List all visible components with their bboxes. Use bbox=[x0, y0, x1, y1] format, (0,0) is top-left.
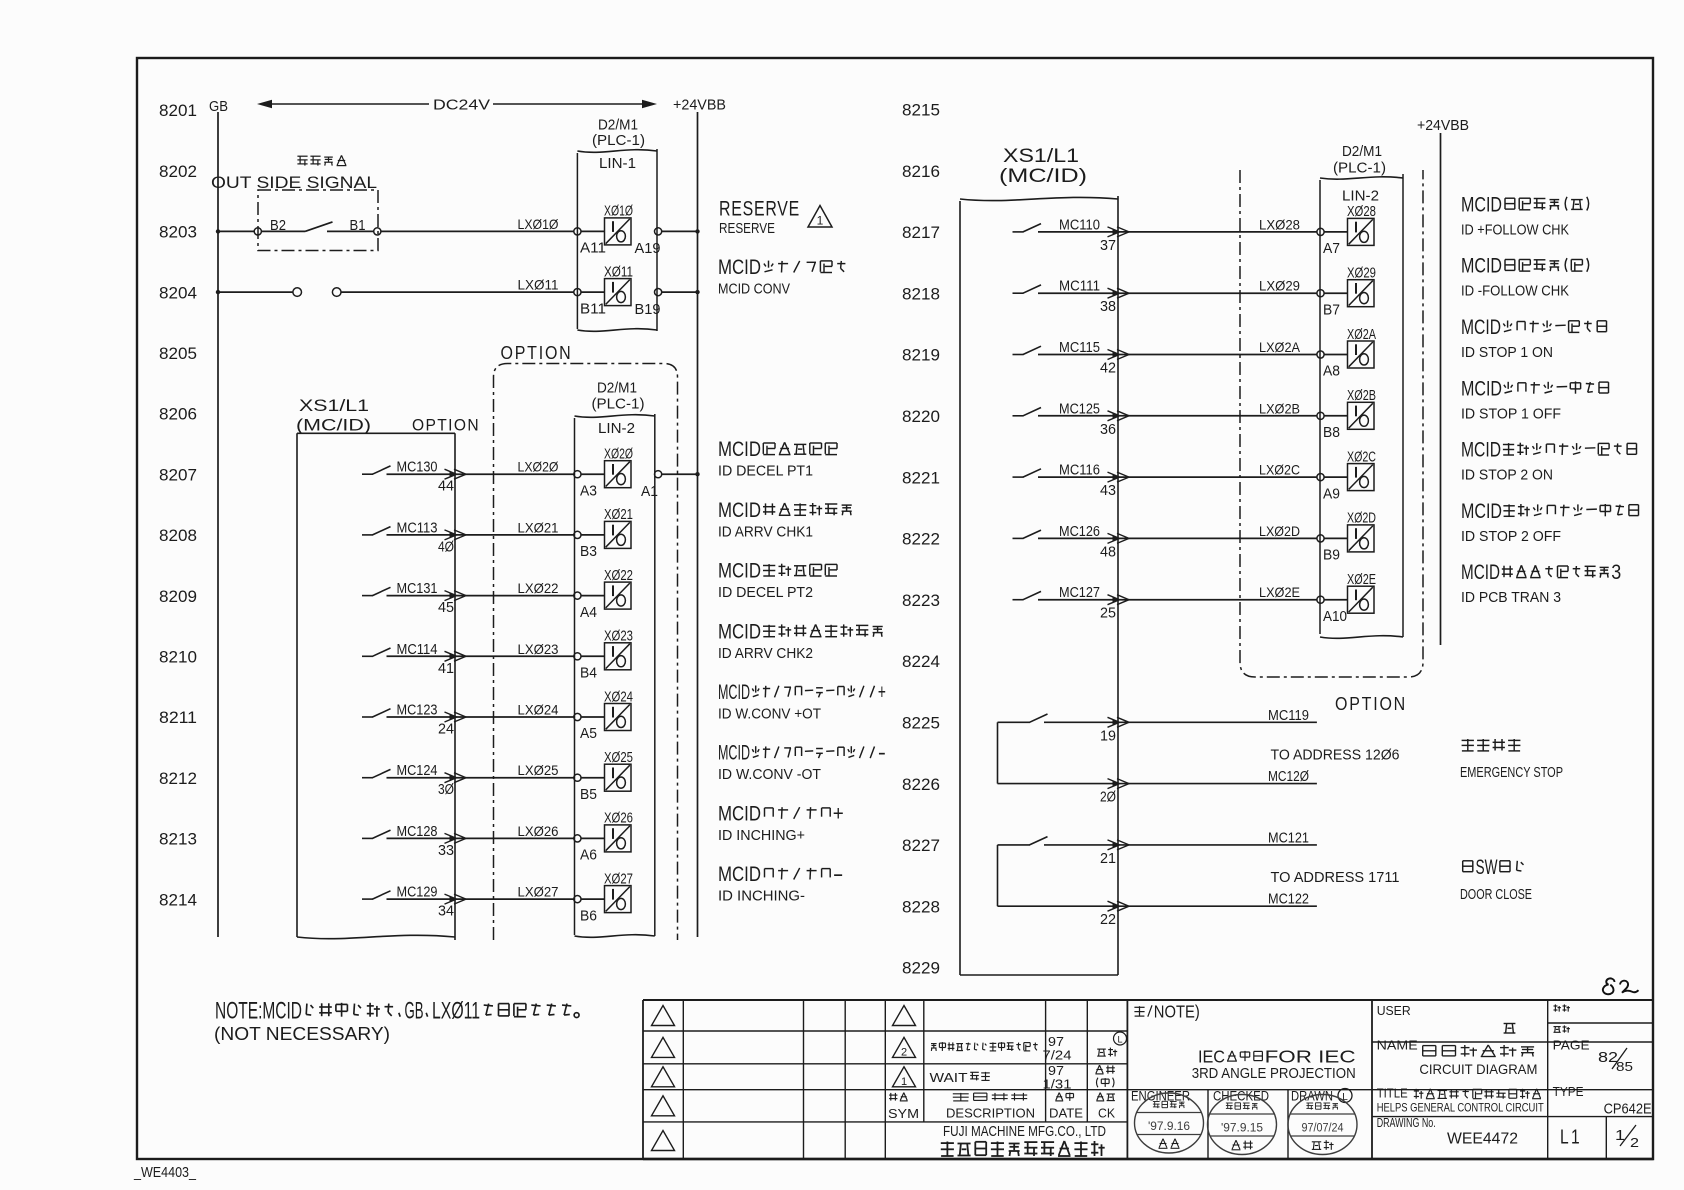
svg-text:(MC/ID): (MC/ID) bbox=[999, 165, 1087, 187]
svg-text:XS1/L1: XS1/L1 bbox=[299, 396, 369, 415]
svg-text:24: 24 bbox=[438, 722, 454, 738]
svg-text:MCID: MCID bbox=[1461, 439, 1501, 462]
svg-text:34: 34 bbox=[438, 904, 454, 920]
svg-text:MCID: MCID bbox=[718, 499, 761, 522]
svg-text:'97.9.16: '97.9.16 bbox=[1148, 1121, 1190, 1133]
svg-text:XØ24: XØ24 bbox=[604, 689, 633, 705]
svg-text:D2/M1: D2/M1 bbox=[598, 118, 638, 134]
svg-text:L: L bbox=[1117, 1035, 1122, 1045]
svg-text:ID W.CONV -OT: ID W.CONV -OT bbox=[718, 767, 821, 783]
svg-text:DRAWING No.: DRAWING No. bbox=[1377, 1116, 1436, 1130]
svg-text:LXØ24: LXØ24 bbox=[518, 702, 559, 718]
svg-text:XØ21: XØ21 bbox=[604, 507, 633, 523]
svg-text:8201: 8201 bbox=[159, 101, 197, 120]
svg-text:OPTION: OPTION bbox=[1335, 694, 1407, 714]
svg-text:RESERVE: RESERVE bbox=[719, 197, 800, 220]
svg-text:MCID: MCID bbox=[718, 620, 761, 643]
svg-text:MC110: MC110 bbox=[1059, 217, 1100, 233]
svg-text:MCID: MCID bbox=[718, 742, 750, 765]
svg-text:8217: 8217 bbox=[902, 223, 940, 242]
svg-text:XØ2E: XØ2E bbox=[1347, 572, 1376, 588]
svg-text:MC111: MC111 bbox=[1059, 279, 1100, 295]
svg-text:MC129: MC129 bbox=[397, 885, 438, 901]
svg-text:MC130: MC130 bbox=[397, 460, 438, 476]
svg-text:8228: 8228 bbox=[902, 897, 940, 916]
svg-text:MC124: MC124 bbox=[397, 763, 438, 779]
svg-text:8222: 8222 bbox=[902, 530, 940, 549]
svg-text:XØ27: XØ27 bbox=[604, 871, 633, 887]
svg-text:8218: 8218 bbox=[902, 284, 940, 303]
svg-text:8209: 8209 bbox=[159, 587, 197, 606]
svg-text:1: 1 bbox=[817, 214, 824, 228]
svg-text:8204: 8204 bbox=[159, 283, 197, 302]
svg-text:B7: B7 bbox=[1323, 302, 1340, 318]
svg-text:ID STOP 2 ON: ID STOP 2 ON bbox=[1461, 468, 1553, 484]
svg-text:MCID: MCID bbox=[718, 802, 761, 825]
svg-text:MCID: MCID bbox=[1461, 316, 1501, 339]
svg-text:8202: 8202 bbox=[159, 162, 197, 181]
svg-text:1: 1 bbox=[901, 1076, 907, 1088]
svg-text:LXØ2Ø: LXØ2Ø bbox=[518, 459, 559, 475]
svg-text:DATE: DATE bbox=[1049, 1106, 1083, 1121]
svg-text:A10: A10 bbox=[1323, 609, 1347, 625]
svg-text:LXØ22: LXØ22 bbox=[518, 580, 559, 596]
svg-text:8205: 8205 bbox=[159, 344, 197, 363]
svg-text:42: 42 bbox=[1100, 361, 1116, 377]
svg-text:TO ADDRESS 12Ø6: TO ADDRESS 12Ø6 bbox=[1271, 747, 1400, 763]
svg-text:MC119: MC119 bbox=[1268, 708, 1309, 724]
svg-text:3: 3 bbox=[1611, 561, 1621, 584]
svg-text:MCID: MCID bbox=[718, 560, 761, 583]
svg-text:DESCRIPTION: DESCRIPTION bbox=[946, 1106, 1035, 1121]
svg-text:MCID: MCID bbox=[1461, 255, 1502, 278]
svg-text:MCID CONV: MCID CONV bbox=[718, 282, 790, 298]
svg-text:44: 44 bbox=[438, 479, 454, 495]
svg-text:8229: 8229 bbox=[902, 959, 940, 978]
svg-text:ID DECEL PT1: ID DECEL PT1 bbox=[718, 464, 813, 480]
svg-text:XØ2A: XØ2A bbox=[1347, 327, 1376, 343]
svg-text:(NOT NECESSARY): (NOT NECESSARY) bbox=[214, 1024, 390, 1044]
svg-text:B8: B8 bbox=[1323, 425, 1340, 441]
svg-text:LXØ27: LXØ27 bbox=[518, 884, 559, 900]
svg-text:8206: 8206 bbox=[159, 405, 197, 424]
svg-text:ID INCHING+: ID INCHING+ bbox=[718, 828, 805, 844]
svg-text:(PLC-1): (PLC-1) bbox=[592, 396, 645, 412]
svg-text:MCID: MCID bbox=[1461, 193, 1502, 216]
svg-text:A9: A9 bbox=[1323, 486, 1340, 502]
svg-text:L1: L1 bbox=[1560, 1127, 1582, 1149]
svg-text:A8: A8 bbox=[1323, 364, 1340, 380]
svg-text:33: 33 bbox=[438, 843, 454, 859]
svg-text:B3: B3 bbox=[580, 544, 597, 560]
svg-text:MC128: MC128 bbox=[397, 824, 438, 840]
svg-text:A7: A7 bbox=[1323, 241, 1340, 257]
svg-text:MC131: MC131 bbox=[397, 581, 438, 597]
svg-text:B6: B6 bbox=[580, 908, 597, 924]
svg-text:MC123: MC123 bbox=[397, 703, 438, 719]
svg-text:8207: 8207 bbox=[159, 465, 197, 484]
svg-text:TO ADDRESS 1711: TO ADDRESS 1711 bbox=[1271, 870, 1400, 886]
svg-text:MC125: MC125 bbox=[1059, 401, 1100, 417]
svg-text:ID DECEL PT2: ID DECEL PT2 bbox=[718, 585, 813, 601]
svg-text:'97.9.15: '97.9.15 bbox=[1221, 1123, 1263, 1135]
svg-text:8216: 8216 bbox=[902, 162, 940, 181]
svg-text:CHECKED: CHECKED bbox=[1213, 1089, 1269, 1104]
svg-text:8220: 8220 bbox=[902, 407, 940, 426]
svg-text:MCID: MCID bbox=[1461, 377, 1502, 400]
svg-text:8208: 8208 bbox=[159, 526, 197, 545]
svg-text:B5: B5 bbox=[580, 787, 597, 803]
svg-text:43: 43 bbox=[1100, 483, 1116, 499]
svg-text:8226: 8226 bbox=[902, 775, 940, 794]
svg-text:LXØ2B: LXØ2B bbox=[1259, 400, 1300, 416]
svg-text:-: - bbox=[878, 742, 886, 765]
svg-text:8224: 8224 bbox=[902, 652, 940, 671]
svg-text:MC114: MC114 bbox=[397, 642, 438, 658]
svg-text:MCID: MCID bbox=[718, 681, 750, 704]
svg-text:XØ25: XØ25 bbox=[604, 750, 633, 766]
svg-text:LXØ2C: LXØ2C bbox=[1259, 462, 1300, 478]
svg-text:1/31: 1/31 bbox=[1043, 1077, 1072, 1092]
svg-text:8203: 8203 bbox=[159, 223, 197, 242]
svg-text:MC116: MC116 bbox=[1059, 463, 1100, 479]
svg-text:8213: 8213 bbox=[159, 830, 197, 849]
svg-text:B1: B1 bbox=[350, 218, 366, 234]
svg-text:DC24V: DC24V bbox=[433, 97, 490, 114]
svg-text:MC122: MC122 bbox=[1268, 892, 1309, 908]
svg-text:LXØ2D: LXØ2D bbox=[1259, 523, 1300, 539]
svg-text:NOTE:MCID: NOTE:MCID bbox=[215, 998, 302, 1025]
svg-text:MC126: MC126 bbox=[1059, 524, 1100, 540]
svg-text:ENGINEER: ENGINEER bbox=[1131, 1089, 1190, 1104]
svg-text:NAME: NAME bbox=[1377, 1039, 1418, 1053]
svg-text:LXØ29: LXØ29 bbox=[1259, 278, 1300, 294]
svg-text:21: 21 bbox=[1100, 851, 1116, 867]
svg-text:XØ2Ø: XØ2Ø bbox=[604, 447, 633, 463]
svg-text:2: 2 bbox=[1630, 1135, 1639, 1150]
svg-text:FOR IEC: FOR IEC bbox=[1265, 1047, 1356, 1067]
svg-text:41: 41 bbox=[438, 661, 454, 677]
svg-text:XØ28: XØ28 bbox=[1347, 204, 1376, 220]
svg-text:EMERGENCY STOP: EMERGENCY STOP bbox=[1460, 765, 1563, 781]
svg-text:MC113: MC113 bbox=[397, 520, 438, 536]
svg-text:LXØ21: LXØ21 bbox=[518, 519, 559, 535]
svg-text:36: 36 bbox=[1100, 422, 1116, 438]
svg-text:ID W.CONV +OT: ID W.CONV +OT bbox=[718, 707, 821, 723]
svg-text:SYM: SYM bbox=[888, 1106, 919, 1121]
svg-text:XØ22: XØ22 bbox=[604, 568, 633, 584]
svg-text:XØ23: XØ23 bbox=[604, 629, 633, 645]
svg-text:IEC: IEC bbox=[1198, 1047, 1225, 1067]
svg-text:OPTION: OPTION bbox=[501, 343, 573, 363]
svg-text:LIN-2: LIN-2 bbox=[1342, 188, 1379, 205]
svg-text:MCID: MCID bbox=[718, 438, 761, 461]
svg-text:+: + bbox=[833, 802, 844, 825]
svg-text:4Ø: 4Ø bbox=[438, 539, 454, 555]
svg-text:XØ11: XØ11 bbox=[604, 264, 633, 280]
svg-text:MC115: MC115 bbox=[1059, 340, 1100, 356]
svg-text:8211: 8211 bbox=[159, 708, 197, 727]
svg-text:ID INCHING-: ID INCHING- bbox=[718, 889, 805, 905]
svg-text:8221: 8221 bbox=[902, 468, 940, 487]
svg-text:8210: 8210 bbox=[159, 648, 197, 667]
svg-text:OPTION: OPTION bbox=[412, 416, 480, 435]
svg-text:XØ26: XØ26 bbox=[604, 811, 633, 827]
svg-text:2Ø: 2Ø bbox=[1100, 790, 1116, 806]
svg-text:B19: B19 bbox=[635, 302, 661, 318]
svg-text:LXØ2E: LXØ2E bbox=[1259, 584, 1300, 600]
svg-text:LXØ25: LXØ25 bbox=[518, 762, 559, 778]
svg-text:LXØ2A: LXØ2A bbox=[1259, 339, 1301, 355]
svg-text:A11: A11 bbox=[580, 241, 606, 257]
svg-text:ID PCB TRAN 3: ID PCB TRAN 3 bbox=[1461, 590, 1561, 606]
svg-text:ID ARRV CHK2: ID ARRV CHK2 bbox=[718, 646, 813, 662]
svg-text:TYPE: TYPE bbox=[1553, 1085, 1584, 1099]
svg-text:ID +FOLLOW CHK: ID +FOLLOW CHK bbox=[1461, 222, 1569, 238]
svg-text:NOTE): NOTE) bbox=[1154, 1002, 1200, 1022]
svg-text:LXØ26: LXØ26 bbox=[518, 823, 559, 839]
svg-text:MCID: MCID bbox=[718, 863, 761, 886]
svg-text:LXØ11: LXØ11 bbox=[432, 998, 480, 1025]
svg-text:B2: B2 bbox=[270, 218, 286, 234]
svg-text:A5: A5 bbox=[580, 726, 597, 742]
svg-text:MC127: MC127 bbox=[1059, 585, 1100, 601]
svg-text:(PLC-1): (PLC-1) bbox=[1333, 161, 1386, 177]
svg-text:8212: 8212 bbox=[159, 769, 197, 788]
svg-text:MC121: MC121 bbox=[1268, 830, 1309, 846]
svg-text:(PLC-1): (PLC-1) bbox=[592, 133, 645, 149]
svg-text:8223: 8223 bbox=[902, 591, 940, 610]
svg-text:8227: 8227 bbox=[902, 836, 940, 855]
svg-text:97/07/24: 97/07/24 bbox=[1302, 1123, 1345, 1135]
svg-text:LIN-1: LIN-1 bbox=[599, 155, 636, 172]
svg-text:XØ29: XØ29 bbox=[1347, 266, 1376, 282]
svg-text:8214: 8214 bbox=[159, 890, 197, 909]
svg-text:XØ2D: XØ2D bbox=[1347, 511, 1376, 527]
svg-text:OUT SIDE SIGNAL: OUT SIDE SIGNAL bbox=[211, 173, 377, 192]
svg-text:D2/M1: D2/M1 bbox=[1342, 144, 1382, 160]
svg-text:_WE4403_: _WE4403_ bbox=[133, 1164, 196, 1181]
svg-text:LXØ28: LXØ28 bbox=[1259, 216, 1300, 232]
svg-text:A6: A6 bbox=[580, 848, 597, 864]
svg-text:B4: B4 bbox=[580, 666, 597, 682]
svg-text:MCID: MCID bbox=[1461, 561, 1500, 584]
svg-text:A4: A4 bbox=[580, 605, 597, 621]
svg-text:WEE4472: WEE4472 bbox=[1447, 1131, 1518, 1148]
svg-text:CK: CK bbox=[1098, 1106, 1115, 1121]
svg-text:48: 48 bbox=[1100, 544, 1116, 560]
svg-text:+: + bbox=[878, 681, 886, 704]
svg-text:45: 45 bbox=[438, 600, 454, 616]
svg-text:MCID: MCID bbox=[1461, 500, 1502, 523]
svg-text:MC12Ø: MC12Ø bbox=[1268, 769, 1309, 785]
svg-text:(MC/ID): (MC/ID) bbox=[296, 416, 371, 435]
svg-text:3RD ANGLE PROJECTION: 3RD ANGLE PROJECTION bbox=[1192, 1066, 1356, 1082]
svg-text:37: 37 bbox=[1100, 238, 1116, 254]
svg-text:ID STOP 2 OFF: ID STOP 2 OFF bbox=[1461, 529, 1561, 545]
svg-text:8219: 8219 bbox=[902, 346, 940, 365]
svg-text:8215: 8215 bbox=[902, 101, 940, 120]
svg-text:CP642E: CP642E bbox=[1604, 1102, 1652, 1118]
svg-text:LIN-2: LIN-2 bbox=[598, 420, 635, 437]
svg-text:82: 82 bbox=[1598, 1049, 1618, 1066]
svg-text:D2/M1: D2/M1 bbox=[597, 381, 637, 397]
svg-text:XØ2C: XØ2C bbox=[1347, 449, 1376, 465]
svg-text:LXØ11: LXØ11 bbox=[518, 277, 559, 293]
svg-text:+24VBB: +24VBB bbox=[673, 97, 726, 114]
svg-text:XØ1Ø: XØ1Ø bbox=[604, 204, 633, 220]
svg-text:HELPS GENERAL CONTROL CIRCUIT: HELPS GENERAL CONTROL CIRCUIT bbox=[1377, 1101, 1545, 1115]
svg-text:2: 2 bbox=[901, 1046, 907, 1058]
svg-text:19: 19 bbox=[1100, 728, 1116, 744]
svg-text:85: 85 bbox=[1616, 1059, 1633, 1074]
svg-text:ID STOP 1 OFF: ID STOP 1 OFF bbox=[1461, 406, 1561, 422]
svg-text:GB: GB bbox=[405, 998, 424, 1025]
svg-text:FUJI MACHINE MFG.CO., LTD: FUJI MACHINE MFG.CO., LTD bbox=[943, 1124, 1106, 1140]
svg-text:WAIT: WAIT bbox=[930, 1070, 968, 1085]
svg-text:A1: A1 bbox=[641, 484, 658, 500]
svg-text:8225: 8225 bbox=[902, 714, 940, 733]
svg-text:22: 22 bbox=[1100, 912, 1116, 928]
svg-text:7/24: 7/24 bbox=[1043, 1048, 1072, 1063]
svg-text:LXØ1Ø: LXØ1Ø bbox=[518, 216, 559, 232]
svg-text:3Ø: 3Ø bbox=[438, 782, 454, 798]
svg-text:DOOR CLOSE: DOOR CLOSE bbox=[1460, 887, 1532, 903]
svg-text:ID -FOLLOW CHK: ID -FOLLOW CHK bbox=[1461, 284, 1569, 300]
svg-text:LXØ23: LXØ23 bbox=[518, 641, 559, 657]
svg-text:-: - bbox=[833, 863, 844, 886]
svg-text:XS1/L1: XS1/L1 bbox=[1003, 145, 1079, 167]
svg-text:ID ARRV CHK1: ID ARRV CHK1 bbox=[718, 524, 813, 540]
svg-text:TITLE: TITLE bbox=[1377, 1087, 1408, 1101]
svg-text:A19: A19 bbox=[635, 241, 661, 257]
svg-text:XØ2B: XØ2B bbox=[1347, 388, 1376, 404]
svg-text:CIRCUIT DIAGRAM: CIRCUIT DIAGRAM bbox=[1419, 1061, 1537, 1077]
svg-text:A3: A3 bbox=[580, 483, 597, 499]
svg-text:USER: USER bbox=[1377, 1004, 1411, 1018]
svg-text:ID STOP 1 ON: ID STOP 1 ON bbox=[1461, 345, 1553, 361]
svg-text:38: 38 bbox=[1100, 299, 1116, 315]
svg-text:RESERVE: RESERVE bbox=[719, 221, 775, 237]
svg-text:B9: B9 bbox=[1323, 548, 1340, 564]
svg-text:25: 25 bbox=[1100, 606, 1116, 622]
svg-text:B11: B11 bbox=[580, 301, 606, 317]
svg-text:GB: GB bbox=[209, 98, 228, 115]
svg-text:+24VBB: +24VBB bbox=[1417, 117, 1469, 134]
svg-text:MCID: MCID bbox=[718, 256, 761, 279]
svg-text:PAGE: PAGE bbox=[1553, 1039, 1590, 1053]
svg-text:SW: SW bbox=[1476, 856, 1498, 879]
